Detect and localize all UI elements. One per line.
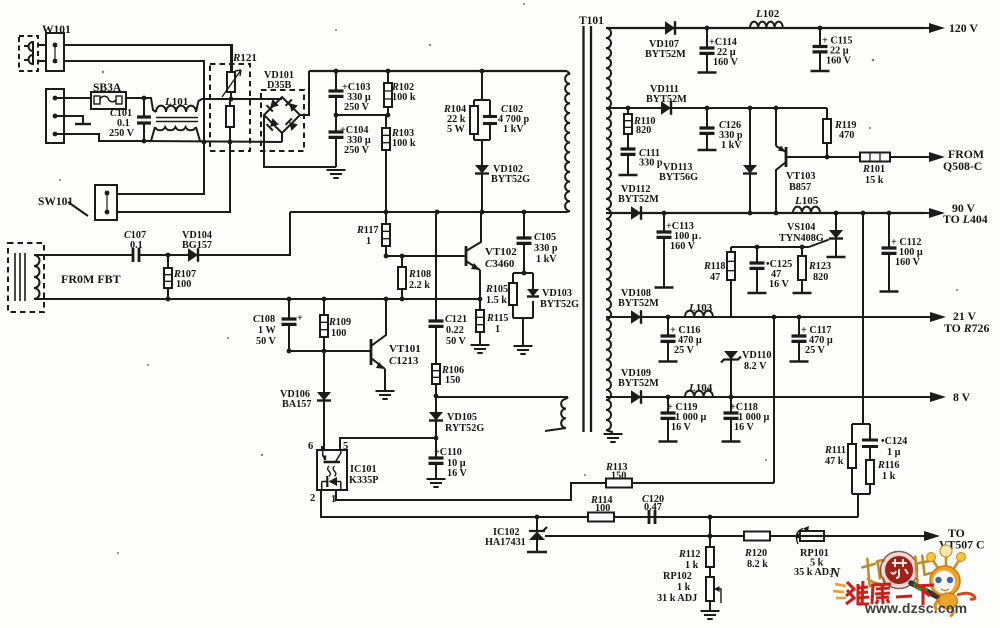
FBT core lines xyxy=(15,253,25,301)
wire secondary bottom to ground xyxy=(606,430,612,433)
node R107 top xyxy=(166,253,171,258)
svg-text:1: 1 xyxy=(495,324,500,335)
svg-text:100 k: 100 k xyxy=(392,138,416,149)
svg-text:470: 470 xyxy=(839,130,854,141)
capacitor C112 xyxy=(888,213,890,291)
resistor R109 xyxy=(323,299,325,351)
svg-text:250 V: 250 V xyxy=(344,102,370,113)
svg-text:1 kV: 1 kV xyxy=(721,140,742,151)
fuse SB3A xyxy=(91,92,126,109)
arrow 90V xyxy=(929,208,945,218)
svg-text:VD105: VD105 xyxy=(447,412,477,423)
connector W101 box xyxy=(46,33,64,71)
diode VD107 xyxy=(665,21,675,35)
transistor VT102 xyxy=(465,246,468,266)
wire 8V rail xyxy=(606,396,928,398)
svg-text:R121: R121 xyxy=(232,52,257,64)
wire VD102 to switch rail xyxy=(481,173,483,212)
transformer feedback winding xyxy=(561,399,566,428)
resistor R113 xyxy=(604,482,774,484)
svg-text:VT102: VT102 xyxy=(485,246,517,258)
svg-text:6: 6 xyxy=(308,441,313,452)
watermark pian char (outlined) xyxy=(914,555,932,582)
svg-text:+C110: +C110 xyxy=(434,447,462,458)
capacitor C101 xyxy=(143,99,145,141)
capacitor C105 xyxy=(523,212,525,273)
wire VT103 base rail to R101 xyxy=(786,156,860,158)
snubber R104 parallel C102 xyxy=(481,71,483,100)
wire bus riser to divider xyxy=(857,494,859,517)
svg-text:TO L404: TO L404 xyxy=(943,212,988,226)
svg-text:RP102: RP102 xyxy=(663,571,692,582)
svg-text:C121: C121 xyxy=(445,314,467,325)
svg-text:820: 820 xyxy=(813,272,828,283)
svg-text:C105: C105 xyxy=(534,232,556,243)
watermark mascot head xyxy=(930,566,960,596)
wire IC101 pin1 to R113 line xyxy=(336,483,604,500)
capacitor C117 xyxy=(798,317,800,361)
svg-text:100: 100 xyxy=(176,279,191,290)
capacitor C115 xyxy=(819,28,821,70)
svg-text:5 W: 5 W xyxy=(447,124,465,135)
svg-text:BYT52M: BYT52M xyxy=(618,194,659,205)
resistor R108 xyxy=(401,256,403,299)
svg-text:100 k: 100 k xyxy=(392,92,416,103)
svg-text:1 kV: 1 kV xyxy=(536,254,557,265)
svg-text:L102: L102 xyxy=(755,8,780,20)
svg-text:T101: T101 xyxy=(579,15,604,27)
svg-text:R105: R105 xyxy=(485,284,508,295)
resistor R110 xyxy=(627,108,629,146)
svg-text:31 k ADJ: 31 k ADJ xyxy=(657,593,697,604)
svg-text:R117: R117 xyxy=(356,225,379,236)
arrow FROM Q508-C xyxy=(929,152,945,162)
svg-text:16 V: 16 V xyxy=(447,468,468,479)
wire drive rail xyxy=(290,211,567,213)
node R121 bottom xyxy=(228,140,233,145)
svg-text:150: 150 xyxy=(445,375,460,386)
capacitor C126 xyxy=(706,108,708,149)
capacitor C108 xyxy=(288,299,290,351)
clamp R105 parallel VD103 xyxy=(513,272,533,274)
thermistor R121 upper element xyxy=(230,45,232,99)
capacitor C125 xyxy=(756,247,758,292)
svg-text:250 V: 250 V xyxy=(109,128,135,139)
transistor VT103 xyxy=(775,108,777,146)
svg-text:47 k: 47 k xyxy=(825,456,844,467)
connector CN box left xyxy=(46,89,64,143)
svg-text:K335P: K335P xyxy=(349,475,378,486)
svg-text:C1213: C1213 xyxy=(389,355,419,367)
svg-text:BA157: BA157 xyxy=(282,399,311,410)
wire zener to 8V rail xyxy=(730,360,732,397)
resistor R117 xyxy=(385,212,387,256)
diode VD106 xyxy=(323,351,325,392)
svg-text:L105: L105 xyxy=(794,195,819,207)
FBT winding xyxy=(34,255,40,299)
resistor R101 (fusible) xyxy=(860,156,924,158)
svg-text:15 k: 15 k xyxy=(865,175,884,186)
diode VD104 xyxy=(168,254,188,256)
mains plug P (dashed) xyxy=(19,36,38,71)
capacitor C118 xyxy=(730,397,732,441)
watermark magnifier handle xyxy=(911,583,938,597)
svg-text:1 k: 1 k xyxy=(882,471,896,482)
svg-text:R109: R109 xyxy=(328,317,351,328)
potentiometer RP101 xyxy=(800,531,824,541)
watermark zhao char (outlined) xyxy=(861,557,887,589)
resistor R118 xyxy=(730,247,732,317)
svg-text:1 k: 1 k xyxy=(685,560,699,571)
capacitor C119 xyxy=(667,397,669,441)
bridge diode marks xyxy=(266,99,278,111)
wire 90V sense line down to divider xyxy=(862,213,864,424)
watermark mascot body xyxy=(939,593,958,609)
ground R115 xyxy=(471,345,490,353)
node SW vertical crossing rail xyxy=(202,140,207,145)
svg-text:330 p: 330 p xyxy=(639,158,663,169)
wire 90V rail xyxy=(606,212,924,214)
watermark magnifier circle xyxy=(884,555,915,586)
arrow TO VT507 C xyxy=(924,531,940,541)
switch SW101 box xyxy=(95,185,117,220)
svg-text:250 V: 250 V xyxy=(344,145,370,156)
wire IC101 pin2 to bottom bus xyxy=(321,490,858,517)
capacitor C116 xyxy=(667,317,669,361)
svg-text:5: 5 xyxy=(343,441,348,452)
svg-text:820: 820 xyxy=(636,125,651,136)
diode VD105 xyxy=(435,396,437,412)
svg-text:1.5 k: 1.5 k xyxy=(486,295,507,306)
svg-text:•C124: •C124 xyxy=(881,436,907,447)
resistor R120 xyxy=(710,535,798,537)
svg-text:2.2 k: 2.2 k xyxy=(409,280,430,291)
optocoupler IC101 box xyxy=(317,450,347,490)
svg-text:VD103: VD103 xyxy=(542,288,572,299)
choke L101 core lines xyxy=(156,118,198,122)
svg-text:VD110: VD110 xyxy=(742,350,771,361)
ground C110 xyxy=(427,479,446,487)
svg-text:TYN408G: TYN408G xyxy=(779,233,824,244)
svg-text:www.dzsc.com: www.dzsc.com xyxy=(864,600,967,616)
watermark speed lines xyxy=(833,584,846,598)
svg-text:R101: R101 xyxy=(862,164,885,175)
capacitor C120 xyxy=(640,516,680,518)
svg-text:25 V: 25 V xyxy=(805,345,826,356)
svg-text:R116: R116 xyxy=(877,460,900,471)
transformer primary winding xyxy=(565,74,570,211)
svg-text:C108: C108 xyxy=(253,314,275,325)
svg-text:R115: R115 xyxy=(486,313,509,324)
svg-text:1: 1 xyxy=(366,236,371,247)
svg-text:16 V: 16 V xyxy=(671,422,692,433)
ground bridge minus xyxy=(327,170,346,178)
svg-text:8 V: 8 V xyxy=(953,390,971,404)
resistor R107 xyxy=(167,255,169,299)
IC101 light arrows xyxy=(328,466,336,476)
svg-text:C3460: C3460 xyxy=(485,258,515,270)
ground VT101 xyxy=(376,391,395,399)
svg-text:N: N xyxy=(829,566,841,581)
resistor R115 xyxy=(479,299,481,344)
resistor R123 xyxy=(801,247,803,292)
stub middle pin xyxy=(55,116,83,123)
svg-text:1 k: 1 k xyxy=(677,582,691,593)
wire R113 to 21V rail xyxy=(773,317,775,483)
arrow 21V xyxy=(930,312,946,322)
svg-text:R111: R111 xyxy=(824,445,846,456)
wire mid rail C103/C104-R102/R103 xyxy=(336,114,388,116)
svg-text:160 V: 160 V xyxy=(826,56,852,67)
IC101 phototransistor xyxy=(324,461,341,464)
wire FBT bottom bus xyxy=(34,298,480,300)
resistor R102 xyxy=(387,71,389,115)
wire R121 mid to bridge top xyxy=(231,98,282,100)
resistor R121 lower element xyxy=(229,99,231,142)
choke L101 top winding xyxy=(156,106,196,112)
svg-text:VS104: VS104 xyxy=(787,222,815,233)
wire fuse leads xyxy=(64,97,91,99)
diode VD112 xyxy=(631,206,641,220)
svg-text:50 V: 50 V xyxy=(446,336,467,347)
watermark weiku yixia text (drawn) xyxy=(846,581,934,605)
thyristor VS104 xyxy=(835,213,837,230)
potentiometer RP102 xyxy=(706,577,714,601)
inductor L103 xyxy=(685,311,713,317)
IC101 LED xyxy=(329,477,338,486)
ground IC102 xyxy=(527,551,547,553)
svg-text:1 kV: 1 kV xyxy=(503,124,524,135)
svg-text:8.2 V: 8.2 V xyxy=(744,361,767,372)
shunt regulator IC102 (TL431) xyxy=(536,517,538,530)
node VD105/C110/pin5 xyxy=(434,436,439,441)
node R106/VD105/feedback winding xyxy=(434,394,439,399)
svg-text:330 p: 330 p xyxy=(534,243,558,254)
node C105 bottom xyxy=(522,271,527,276)
transistor VT101 xyxy=(370,339,373,365)
dashed box FROM FBT winding xyxy=(8,243,44,312)
capacitor C113 xyxy=(663,213,665,287)
capacitor C104 xyxy=(335,115,337,167)
arrow 8V xyxy=(930,392,946,402)
zener VD110 xyxy=(724,351,738,360)
capacitor C107 xyxy=(133,254,168,256)
arrow 120V xyxy=(929,23,945,33)
node C101 bottom xyxy=(142,139,147,144)
svg-text:VT103: VT103 xyxy=(786,171,815,182)
svg-text:47: 47 xyxy=(710,272,720,283)
capacitor C111 xyxy=(627,146,629,174)
resistor R114 xyxy=(560,516,640,518)
wire bottom pin to C101 xyxy=(55,134,144,141)
svg-text:25 V: 25 V xyxy=(674,345,695,356)
svg-text:IC101: IC101 xyxy=(350,464,377,475)
svg-text:2: 2 xyxy=(310,493,315,504)
svg-text:1 µ: 1 µ xyxy=(887,447,901,458)
svg-text:BYT52G: BYT52G xyxy=(491,174,530,185)
capacitor C103 xyxy=(335,71,337,115)
svg-text:+: + xyxy=(297,313,303,324)
resistor R103 xyxy=(385,115,387,212)
wire VT101 base rail xyxy=(289,350,371,352)
node fuse/C101/L101 xyxy=(142,96,147,101)
svg-text:16 V: 16 V xyxy=(734,422,755,433)
svg-text:50 V: 50 V xyxy=(256,336,277,347)
wire junction bus to ref rail xyxy=(709,517,711,536)
wire 21V rail xyxy=(606,316,928,318)
svg-text:R118: R118 xyxy=(703,261,726,272)
transformer T101 core xyxy=(584,26,592,432)
wire bridge + output to DC bus xyxy=(300,71,309,115)
svg-text:RYT52G: RYT52G xyxy=(445,423,484,434)
wire AC rail to bridge bottom xyxy=(144,141,282,142)
svg-text:160 V: 160 V xyxy=(713,57,739,68)
svg-text:VT101: VT101 xyxy=(389,343,421,355)
transformer secondary winding xyxy=(606,28,611,430)
wire IC102 ref rail to VT507 xyxy=(545,535,924,537)
svg-text:BYT52M: BYT52M xyxy=(645,49,686,60)
svg-text:TO R726: TO R726 xyxy=(944,321,989,335)
wire VD111 rail xyxy=(606,107,827,109)
scan speckles xyxy=(102,71,104,73)
dashed box VD101 xyxy=(261,90,304,151)
capacitor C121 xyxy=(435,212,437,364)
svg-text:R120: R120 xyxy=(744,548,767,559)
svg-text:BYT52M: BYT52M xyxy=(618,378,659,389)
svg-text:160 V: 160 V xyxy=(670,241,696,252)
ground RP102 xyxy=(701,611,720,619)
inductor L102 xyxy=(750,22,783,28)
capacitor C110 xyxy=(435,438,437,478)
svg-text:BYT52G: BYT52G xyxy=(540,299,579,310)
svg-text:BYT56G: BYT56G xyxy=(659,172,698,183)
wire VS104 gate rail xyxy=(731,246,809,248)
node R121 mid / bridge AC1 xyxy=(229,97,234,102)
inductor L104 xyxy=(685,391,713,397)
wire bridge - output to ground rail xyxy=(264,115,336,167)
resistor R119 xyxy=(826,108,828,119)
choke L101 bottom winding xyxy=(155,127,196,130)
svg-text:FR0M FBT: FR0M FBT xyxy=(61,272,121,286)
wire FBT top to C107 xyxy=(34,254,133,256)
svg-text:0.22: 0.22 xyxy=(446,325,464,336)
svg-text:R123: R123 xyxy=(808,261,831,272)
svg-text:HA17431: HA17431 xyxy=(485,537,526,548)
wire VD104 out up to drive rail xyxy=(198,212,290,255)
wire bridge bottom AC xyxy=(281,133,283,142)
svg-text:Q508-C: Q508-C xyxy=(943,159,982,173)
svg-text:8.2 k: 8.2 k xyxy=(747,559,768,570)
svg-text:R108: R108 xyxy=(408,269,431,280)
bridge rectifier VD101 diamond xyxy=(264,97,300,133)
watermark mascot antennae xyxy=(932,555,960,568)
svg-text:B857: B857 xyxy=(789,182,811,193)
wire base rail xyxy=(386,255,466,257)
inductor L105 xyxy=(793,207,820,213)
switch SW101 lever xyxy=(68,202,88,216)
wire W101 bottom to SW101 xyxy=(64,61,204,194)
dashed box R121 xyxy=(210,64,250,151)
svg-text:16 V: 16 V xyxy=(769,279,790,290)
diode VD113 xyxy=(749,108,751,165)
diode VD109 xyxy=(631,390,641,404)
diode VD102 xyxy=(475,165,489,174)
wire IC101 pin5 xyxy=(340,438,436,450)
svg-text:R112: R112 xyxy=(678,549,701,560)
diode VD111 xyxy=(661,101,671,115)
svg-text:160 V: 160 V xyxy=(895,257,921,268)
wire feedback winding bottom stub xyxy=(545,428,566,431)
resistor R106 xyxy=(435,330,437,396)
svg-text:35 k ADJ: 35 k ADJ xyxy=(794,567,834,578)
diode VD108 xyxy=(631,310,641,324)
svg-text:120 V: 120 V xyxy=(949,21,978,35)
wire feedback winding top to VD105 node xyxy=(436,396,568,398)
svg-text:0.47: 0.47 xyxy=(644,502,662,513)
ground clamp xyxy=(514,346,533,354)
wire W101 top to R121 thermistor xyxy=(64,45,232,72)
svg-text:100: 100 xyxy=(331,328,346,339)
resistor R112 xyxy=(709,536,711,577)
wire main DC bus +300V xyxy=(309,70,567,72)
svg-text:1 W: 1 W xyxy=(258,325,276,336)
divider R111 / C124+R116 network xyxy=(852,423,870,425)
wire 120V rail xyxy=(606,27,924,29)
wire SW101 bottom terminal to R121 bottom rail xyxy=(117,142,230,212)
svg-text:BYT52M: BYT52M xyxy=(618,298,659,309)
node R117/VT102 base xyxy=(384,254,389,259)
capacitor C114 xyxy=(706,28,708,72)
wire snubber to VD102 xyxy=(481,140,483,165)
wire IC101 pin6 (lead) xyxy=(321,446,323,450)
svg-text:BYT52M: BYT52M xyxy=(646,94,687,105)
